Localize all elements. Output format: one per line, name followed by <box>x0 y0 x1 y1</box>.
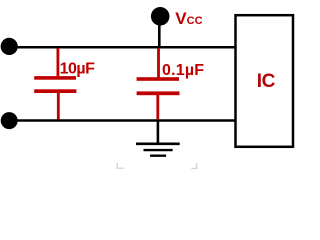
node: VCC terminal dot <box>151 7 170 26</box>
capacitor C1 bottom lead wire <box>57 93 60 120</box>
selection corner mark bottom-right <box>191 163 196 168</box>
IC U1 body <box>236 15 294 147</box>
node: left top terminal dot <box>1 38 18 55</box>
capacitor C1 bottom plate <box>34 89 76 93</box>
capacitor C2 (0.1uF) top lead wire <box>157 48 160 78</box>
ground bar 1 <box>136 143 180 146</box>
capacitor C1 top plate <box>34 76 76 80</box>
ground bar 3 <box>150 154 166 156</box>
svg-text:10µF: 10µF <box>60 61 96 78</box>
capacitor C1 (10uF) top lead wire <box>57 48 60 77</box>
capacitor C2 bottom lead wire <box>156 95 159 119</box>
selection corner mark bottom-left <box>117 163 124 168</box>
svg-text:IC: IC <box>257 71 276 92</box>
wire: bottom ground rail <box>9 119 236 122</box>
wire: VCC dot down to top rail <box>158 24 161 48</box>
ground bar 2 <box>144 149 173 151</box>
node: left bottom terminal dot <box>1 112 18 129</box>
capacitor C2 bottom plate <box>137 91 180 95</box>
ground stem wire <box>157 122 160 144</box>
capacitor C2 top plate <box>137 77 179 81</box>
svg-text:0.1µF: 0.1µF <box>162 62 204 79</box>
wire: top supply rail <box>9 46 236 49</box>
